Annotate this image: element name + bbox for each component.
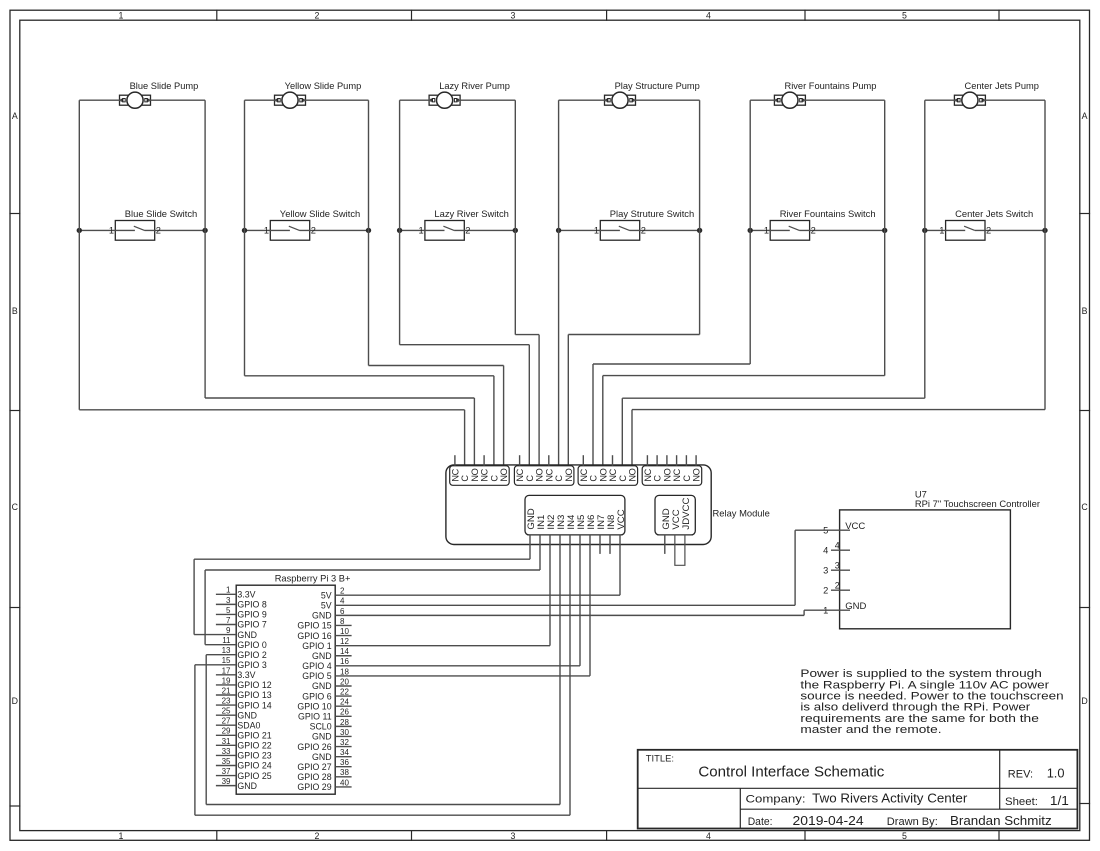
svg-text:RPi 7" Touchscreen Controller: RPi 7" Touchscreen Controller bbox=[915, 498, 1040, 509]
wire left rail of Lazy River to relay C bbox=[400, 100, 530, 466]
svg-text:GPIO 10: GPIO 10 bbox=[297, 701, 331, 711]
RPi pin 6 GND bbox=[312, 607, 804, 621]
svg-text:NO: NO bbox=[692, 468, 702, 481]
svg-text:C: C bbox=[525, 475, 535, 482]
wire pump 1 top left bbox=[79, 99, 122, 101]
svg-text:GND: GND bbox=[312, 752, 332, 762]
relay pin NO (block 4) bbox=[663, 455, 673, 481]
svg-text:31: 31 bbox=[222, 737, 231, 746]
svg-text:GPIO 26: GPIO 26 bbox=[297, 742, 331, 752]
svg-text:C: C bbox=[554, 475, 564, 482]
relay pin NO (block 1) bbox=[470, 468, 480, 481]
svg-text:8: 8 bbox=[340, 617, 345, 626]
svg-text:REV:: REV: bbox=[1008, 769, 1033, 781]
svg-text:Center Jets Pump: Center Jets Pump bbox=[965, 81, 1039, 91]
junction on right rail of Center Jets bbox=[1042, 228, 1047, 233]
RPi pin 40 GPIO 29 bbox=[297, 778, 351, 792]
svg-text:GPIO 9: GPIO 9 bbox=[237, 610, 266, 620]
svg-text:26: 26 bbox=[340, 708, 349, 717]
svg-text:GPIO 12: GPIO 12 bbox=[237, 680, 271, 690]
svg-text:1/1: 1/1 bbox=[1050, 793, 1069, 808]
svg-text:35: 35 bbox=[222, 757, 231, 766]
svg-text:GPIO 3: GPIO 3 bbox=[237, 660, 266, 670]
junction on left rail of Blue Slide bbox=[77, 228, 82, 233]
RPi pin 33 GPIO 23 bbox=[216, 747, 272, 761]
svg-text:GPIO 21: GPIO 21 bbox=[237, 730, 271, 740]
svg-text:23: 23 bbox=[222, 696, 231, 705]
relay pin C (block 2) bbox=[554, 475, 564, 482]
svg-text:1.0: 1.0 bbox=[1047, 766, 1065, 781]
svg-text:4: 4 bbox=[835, 541, 840, 551]
svg-text:GPIO 27: GPIO 27 bbox=[297, 762, 331, 772]
switch S3 Lazy River Switch bbox=[400, 221, 516, 241]
svg-text:18: 18 bbox=[340, 667, 349, 676]
svg-text:NO: NO bbox=[499, 468, 509, 481]
svg-text:2: 2 bbox=[811, 226, 816, 236]
svg-text:2019-04-24: 2019-04-24 bbox=[793, 813, 864, 828]
relay pin C (block 4) bbox=[653, 455, 663, 481]
svg-text:B: B bbox=[12, 306, 18, 316]
svg-text:3.3V: 3.3V bbox=[237, 670, 255, 680]
svg-text:source is needed. Power to the: source is needed. Power to the touchscre… bbox=[800, 691, 1063, 703]
svg-text:36: 36 bbox=[340, 758, 349, 767]
svg-text:16: 16 bbox=[340, 657, 349, 666]
wire pump 1 top right bbox=[148, 99, 205, 101]
svg-text:GND: GND bbox=[237, 630, 257, 640]
wire relay GND to RPi pin9 GND bbox=[194, 535, 530, 635]
svg-text:Yellow Slide Switch: Yellow Slide Switch bbox=[280, 208, 360, 219]
svg-text:GND: GND bbox=[312, 732, 332, 742]
svg-text:GPIO 0: GPIO 0 bbox=[237, 640, 266, 650]
svg-text:Control Interface Schematic: Control Interface Schematic bbox=[698, 764, 885, 780]
svg-text:NC: NC bbox=[608, 468, 618, 481]
relay pin NO (block 4) bbox=[692, 455, 702, 481]
relay pin C (block 2) bbox=[525, 475, 535, 482]
svg-text:NO: NO bbox=[564, 468, 574, 481]
stub relay IN7 bbox=[599, 535, 601, 554]
RPi pin 28 SCL0 bbox=[310, 718, 352, 732]
svg-text:GPIO 6: GPIO 6 bbox=[302, 691, 331, 701]
svg-text:2: 2 bbox=[986, 226, 991, 236]
svg-text:SDA0: SDA0 bbox=[237, 720, 260, 730]
relay pin NO (block 3) bbox=[598, 468, 608, 481]
U7 pin 3 bbox=[823, 561, 850, 576]
switch S2 Yellow Slide Switch bbox=[245, 221, 369, 241]
svg-text:GPIO 8: GPIO 8 bbox=[237, 600, 266, 610]
svg-text:5: 5 bbox=[902, 831, 907, 841]
wire relay IN1 to RPi pin11 GPIO 0 bbox=[205, 535, 540, 645]
RPi pin 9 GND bbox=[194, 626, 257, 640]
RPi pin 2 5V bbox=[321, 587, 620, 601]
svg-text:NC: NC bbox=[579, 468, 589, 481]
wire left rail of Yellow Slide to relay C bbox=[245, 100, 494, 466]
svg-text:GPIO 29: GPIO 29 bbox=[297, 782, 331, 792]
svg-text:25: 25 bbox=[222, 707, 231, 716]
svg-text:Relay Module: Relay Module bbox=[713, 508, 770, 519]
junction on left rail of Yellow Slide bbox=[242, 228, 247, 233]
svg-text:GPIO 23: GPIO 23 bbox=[237, 751, 271, 761]
jumper VCC-JDVCC bbox=[675, 535, 685, 565]
svg-text:GPIO 16: GPIO 16 bbox=[297, 631, 331, 641]
wire pump 4 top left bbox=[559, 99, 607, 101]
svg-text:20: 20 bbox=[340, 677, 349, 686]
junction on left rail of Center Jets bbox=[922, 228, 927, 233]
junction on right rail of River Fountains bbox=[882, 228, 887, 233]
wire relay IN4 to RPi pin15 GPIO 3 bbox=[195, 535, 570, 815]
svg-text:37: 37 bbox=[222, 767, 231, 776]
svg-text:GPIO 28: GPIO 28 bbox=[297, 772, 331, 782]
RPi pin 16 GPIO 4 bbox=[302, 657, 580, 671]
motor M5 River Fountains Pump bbox=[774, 92, 805, 108]
svg-text:GPIO 24: GPIO 24 bbox=[237, 761, 271, 771]
svg-text:22: 22 bbox=[340, 688, 349, 697]
RPi pin 31 GPIO 22 bbox=[216, 737, 272, 751]
svg-text:3: 3 bbox=[511, 831, 516, 841]
svg-text:TITLE:: TITLE: bbox=[646, 753, 674, 764]
wire pump 6 top left bbox=[925, 99, 957, 101]
svg-text:5: 5 bbox=[902, 10, 907, 20]
junction on left rail of Lazy River bbox=[397, 228, 402, 233]
RPi pin 22 GPIO 6 bbox=[302, 688, 351, 702]
svg-text:Brandan Schmitz: Brandan Schmitz bbox=[950, 813, 1052, 828]
wire pump 2 top left bbox=[245, 99, 278, 101]
svg-text:2: 2 bbox=[311, 226, 316, 236]
relay pin C (block 3) bbox=[618, 475, 628, 482]
svg-text:C: C bbox=[653, 475, 663, 482]
relay pin NC (block 4) bbox=[672, 455, 682, 481]
junction on right rail of Blue Slide bbox=[202, 228, 207, 233]
svg-text:GPIO 11: GPIO 11 bbox=[298, 711, 332, 721]
wire pump 6 top right bbox=[983, 99, 1045, 101]
svg-text:Play Structure Pump: Play Structure Pump bbox=[615, 81, 700, 91]
svg-text:28: 28 bbox=[340, 718, 349, 727]
junction on left rail of Play Structure bbox=[556, 228, 561, 233]
svg-text:2: 2 bbox=[340, 587, 345, 596]
svg-text:GPIO 7: GPIO 7 bbox=[237, 620, 266, 630]
wire left rail of River Fountains to relay C bbox=[593, 100, 750, 466]
svg-text:3: 3 bbox=[511, 10, 516, 20]
svg-text:Power is supplied to the syste: Power is supplied to the system through bbox=[800, 668, 1041, 680]
U7 pin 4 bbox=[823, 541, 850, 556]
svg-text:2: 2 bbox=[823, 586, 828, 596]
svg-text:River Fountains Pump: River Fountains Pump bbox=[785, 81, 877, 91]
svg-text:NC: NC bbox=[643, 468, 653, 481]
junction on right rail of Lazy River bbox=[513, 228, 518, 233]
svg-text:5V: 5V bbox=[321, 590, 332, 600]
svg-text:the Raspberry Pi. A single 110: the Raspberry Pi. A single 110v AC power bbox=[800, 679, 1049, 691]
relay terminal block 4 bbox=[642, 466, 702, 486]
svg-text:3: 3 bbox=[226, 596, 231, 605]
RPi pin 17 3.3V bbox=[216, 666, 256, 680]
svg-text:19: 19 bbox=[222, 676, 231, 685]
svg-text:C: C bbox=[618, 475, 628, 482]
svg-text:JDVCC: JDVCC bbox=[681, 498, 692, 530]
motor M4 Play Structure Pump bbox=[605, 92, 636, 108]
svg-text:Two Rivers Activity Center: Two Rivers Activity Center bbox=[812, 791, 968, 806]
svg-text:D: D bbox=[12, 696, 18, 706]
RPi pin 27 SDA0 bbox=[216, 717, 261, 731]
relay terminal block 2 bbox=[514, 466, 574, 486]
RPi pin 10 GPIO 16 bbox=[297, 627, 351, 641]
svg-text:C: C bbox=[490, 475, 500, 482]
title block frame bbox=[638, 750, 1078, 829]
svg-text:VCC: VCC bbox=[845, 521, 865, 532]
svg-text:1: 1 bbox=[119, 831, 124, 841]
wire left rail of Play Structure to relay C bbox=[558, 100, 560, 466]
svg-text:B: B bbox=[1082, 306, 1088, 316]
svg-text:C: C bbox=[589, 475, 599, 482]
svg-text:7: 7 bbox=[226, 616, 231, 625]
RPi pin 18 GPIO 5 bbox=[302, 667, 590, 681]
svg-text:A: A bbox=[12, 111, 18, 121]
svg-text:30: 30 bbox=[340, 728, 349, 737]
U7 pin 5 bbox=[823, 526, 850, 536]
RPi pin 19 GPIO 12 bbox=[216, 676, 272, 690]
relay pin NC (block 2) bbox=[544, 455, 554, 481]
wire right rail of Center Jets to relay NO bbox=[632, 100, 1045, 466]
RPi pin 39 GND bbox=[216, 777, 257, 791]
svg-text:D: D bbox=[1081, 696, 1087, 706]
svg-text:2: 2 bbox=[315, 831, 320, 841]
svg-text:Company:: Company: bbox=[746, 794, 806, 806]
RPi pin 7 GPIO 7 bbox=[216, 616, 267, 630]
RPi pin 14 GND bbox=[312, 647, 352, 661]
RPi pin 20 GND bbox=[312, 677, 352, 691]
RPi pin 4 5V bbox=[321, 597, 795, 611]
relay module body bbox=[446, 465, 711, 545]
RPi pin 26 GPIO 11 bbox=[298, 708, 352, 722]
RPi pin 37 GPIO 25 bbox=[216, 767, 272, 781]
wire left rail of Blue Slide to relay C bbox=[79, 100, 464, 466]
wire RPi pin4 5V to U7 VCC bbox=[795, 530, 831, 605]
wire right rail of Blue Slide to relay NO bbox=[205, 100, 474, 466]
RPi pin 12 GPIO 1 bbox=[302, 637, 550, 651]
svg-text:12: 12 bbox=[340, 637, 349, 646]
svg-text:9: 9 bbox=[226, 626, 231, 635]
svg-text:38: 38 bbox=[340, 768, 349, 777]
stub relay power GND bbox=[664, 535, 666, 554]
relay pin C (block 1) bbox=[460, 475, 470, 482]
wire relay IN2 to RPi pin12 GPIO 1 bbox=[549, 535, 551, 646]
svg-text:27: 27 bbox=[222, 717, 231, 726]
U7 pin 2 bbox=[823, 581, 850, 596]
RPi pin 35 GPIO 24 bbox=[216, 757, 272, 771]
junction on right rail of Play Structure bbox=[697, 228, 702, 233]
wire right rail of Play Structure to relay NO bbox=[568, 100, 699, 466]
svg-text:Lazy River Switch: Lazy River Switch bbox=[434, 208, 509, 219]
relay terminal block 1 bbox=[450, 466, 510, 486]
wire pump 5 top right bbox=[803, 99, 885, 101]
relay pin C (block 4) bbox=[682, 455, 692, 481]
svg-text:GND: GND bbox=[845, 601, 866, 612]
svg-text:2: 2 bbox=[315, 10, 320, 20]
IC Raspberry Pi 3 B+ body bbox=[236, 585, 335, 794]
relay terminal block 3 bbox=[578, 466, 638, 486]
wire RPi pin6 GND to U7 GND bbox=[804, 610, 831, 615]
svg-text:5: 5 bbox=[226, 606, 231, 615]
svg-text:2: 2 bbox=[835, 581, 840, 591]
svg-text:11: 11 bbox=[222, 636, 231, 645]
svg-text:1: 1 bbox=[264, 226, 269, 236]
svg-text:1: 1 bbox=[764, 226, 769, 236]
svg-text:River Fountains Switch: River Fountains Switch bbox=[780, 208, 876, 219]
relay pin NC (block 3) bbox=[608, 455, 618, 481]
junction on right rail of Yellow Slide bbox=[366, 228, 371, 233]
wire pump 3 top right bbox=[458, 99, 516, 101]
svg-text:GND: GND bbox=[312, 651, 332, 661]
wire pump 2 top right bbox=[303, 99, 369, 101]
svg-text:1: 1 bbox=[119, 10, 124, 20]
svg-text:SCL0: SCL0 bbox=[310, 722, 332, 732]
switch S5 River Fountains Switch bbox=[750, 221, 885, 241]
svg-text:15: 15 bbox=[222, 656, 231, 665]
svg-text:GPIO 1: GPIO 1 bbox=[302, 641, 331, 651]
wire pump 5 top left bbox=[750, 99, 777, 101]
svg-text:21: 21 bbox=[222, 686, 231, 695]
relay pin NO (block 2) bbox=[564, 468, 574, 481]
RPi pin 21 GPIO 13 bbox=[216, 686, 272, 700]
svg-text:C: C bbox=[460, 475, 470, 482]
svg-text:17: 17 bbox=[222, 666, 231, 675]
U7 pin 1 bbox=[823, 606, 850, 616]
wire relay IN5 to RPi pin16 GPIO 4 bbox=[579, 535, 581, 666]
motor M2 Yellow Slide Pump bbox=[275, 92, 306, 108]
RPi pin 15 GPIO 3 bbox=[195, 656, 267, 670]
svg-text:10: 10 bbox=[340, 627, 349, 636]
RPi pin 8 GPIO 15 bbox=[297, 617, 351, 631]
svg-text:3: 3 bbox=[835, 561, 840, 571]
svg-text:2: 2 bbox=[465, 226, 470, 236]
IC U7 RPi touchscreen controller body bbox=[840, 510, 1011, 629]
svg-text:2: 2 bbox=[641, 226, 646, 236]
wire pump 3 top left bbox=[400, 99, 432, 101]
svg-text:master and the remote.: master and the remote. bbox=[800, 724, 941, 736]
svg-text:GPIO 15: GPIO 15 bbox=[297, 621, 331, 631]
relay pin C (block 3) bbox=[589, 475, 599, 482]
RPi pin 23 GPIO 14 bbox=[216, 696, 272, 710]
svg-text:34: 34 bbox=[340, 748, 349, 757]
svg-text:Blue Slide Pump: Blue Slide Pump bbox=[130, 81, 199, 91]
svg-text:Blue Slide Switch: Blue Slide Switch bbox=[125, 208, 197, 219]
svg-text:NC: NC bbox=[544, 468, 554, 481]
svg-text:Date:: Date: bbox=[748, 816, 773, 828]
switch S1 Blue Slide Switch bbox=[79, 221, 205, 241]
motor M3 Lazy River Pump bbox=[429, 92, 460, 108]
svg-text:NO: NO bbox=[598, 468, 608, 481]
svg-text:4: 4 bbox=[340, 597, 345, 606]
svg-text:VCC: VCC bbox=[616, 509, 627, 529]
svg-text:NC: NC bbox=[480, 468, 490, 481]
svg-text:33: 33 bbox=[222, 747, 231, 756]
RPi pin 13 GPIO 2 bbox=[206, 646, 267, 660]
RPi pin 30 GND bbox=[312, 728, 352, 742]
relay power header bbox=[655, 495, 695, 535]
RPi pin 3 GPIO 8 bbox=[216, 596, 267, 610]
svg-text:Raspberry Pi 3 B+: Raspberry Pi 3 B+ bbox=[275, 574, 351, 584]
svg-text:3: 3 bbox=[823, 566, 828, 576]
junction on left rail of River Fountains bbox=[748, 228, 753, 233]
RPi pin 36 GPIO 27 bbox=[297, 758, 351, 772]
svg-text:1: 1 bbox=[109, 226, 114, 236]
svg-text:GPIO 13: GPIO 13 bbox=[237, 690, 271, 700]
svg-text:4: 4 bbox=[823, 546, 828, 556]
svg-text:GPIO 4: GPIO 4 bbox=[302, 661, 331, 671]
svg-text:Play Struture Switch: Play Struture Switch bbox=[610, 208, 694, 219]
wire pump 4 top right bbox=[633, 99, 700, 101]
svg-text:NO: NO bbox=[628, 468, 638, 481]
svg-text:GPIO 22: GPIO 22 bbox=[237, 741, 271, 751]
svg-text:NC: NC bbox=[515, 468, 525, 481]
svg-text:Yellow Slide Pump: Yellow Slide Pump bbox=[285, 81, 362, 91]
svg-text:Sheet:: Sheet: bbox=[1005, 796, 1038, 808]
svg-text:C: C bbox=[1081, 502, 1088, 512]
svg-text:14: 14 bbox=[340, 647, 349, 656]
RPi pin 29 GPIO 21 bbox=[216, 727, 272, 741]
RPi pin 32 GPIO 26 bbox=[297, 738, 351, 752]
svg-text:GPIO 25: GPIO 25 bbox=[237, 771, 271, 781]
svg-text:GPIO 14: GPIO 14 bbox=[237, 700, 271, 710]
svg-text:29: 29 bbox=[222, 727, 231, 736]
svg-text:is also deliverd through the R: is also deliverd through the RPi. Power bbox=[800, 702, 1030, 714]
RPi pin 34 GND bbox=[312, 748, 352, 762]
svg-text:6: 6 bbox=[340, 607, 345, 616]
svg-text:GPIO 5: GPIO 5 bbox=[302, 671, 331, 681]
svg-text:4: 4 bbox=[706, 831, 711, 841]
svg-text:NC: NC bbox=[451, 468, 461, 481]
svg-text:GND: GND bbox=[312, 681, 332, 691]
svg-text:GND: GND bbox=[237, 781, 257, 791]
switch S6 Center Jets Switch bbox=[925, 221, 1045, 241]
svg-text:NC: NC bbox=[672, 468, 682, 481]
relay pin NO (block 2) bbox=[535, 468, 545, 481]
svg-text:1: 1 bbox=[419, 226, 424, 236]
relay control header bbox=[525, 495, 625, 535]
relay pin NC (block 1) bbox=[480, 455, 490, 481]
relay pin C (block 1) bbox=[490, 475, 500, 482]
svg-text:32: 32 bbox=[340, 738, 349, 747]
RPi pin 25 GND bbox=[216, 707, 257, 721]
svg-text:A: A bbox=[1082, 111, 1088, 121]
svg-text:Drawn By:: Drawn By: bbox=[887, 816, 938, 828]
svg-text:40: 40 bbox=[340, 778, 349, 787]
relay pin NC (block 2) bbox=[515, 455, 525, 481]
svg-text:requirements are the same for: requirements are the same for both the bbox=[800, 713, 1039, 725]
svg-text:3.3V: 3.3V bbox=[237, 590, 255, 600]
svg-text:13: 13 bbox=[222, 646, 231, 655]
relay pin NO (block 1) bbox=[499, 468, 509, 481]
svg-text:GND: GND bbox=[312, 611, 332, 621]
wire relay VCC to RPi pin2 5V bbox=[619, 535, 621, 595]
svg-text:Center Jets Switch: Center Jets Switch bbox=[955, 208, 1033, 219]
RPi pin 11 GPIO 0 bbox=[205, 636, 267, 650]
relay pin NO (block 3) bbox=[628, 468, 638, 481]
relay pin NC (block 4) bbox=[643, 455, 653, 481]
svg-text:2: 2 bbox=[156, 226, 161, 236]
RPi pin 38 GPIO 28 bbox=[297, 768, 351, 782]
svg-text:Lazy River Pump: Lazy River Pump bbox=[439, 81, 510, 91]
svg-text:5V: 5V bbox=[321, 600, 332, 610]
relay pin NC (block 1) bbox=[451, 455, 461, 481]
wire left rail of Center Jets to relay C bbox=[622, 100, 925, 466]
RPi pin 5 GPIO 9 bbox=[216, 606, 267, 620]
svg-text:GPIO 2: GPIO 2 bbox=[237, 650, 266, 660]
svg-text:NO: NO bbox=[470, 468, 480, 481]
RPi pin 1 3.3V bbox=[216, 586, 256, 600]
svg-text:NO: NO bbox=[663, 468, 673, 481]
svg-text:1: 1 bbox=[226, 586, 231, 595]
relay pin NC (block 3) bbox=[579, 455, 589, 481]
wire right rail of Lazy River to relay NO bbox=[515, 100, 539, 466]
